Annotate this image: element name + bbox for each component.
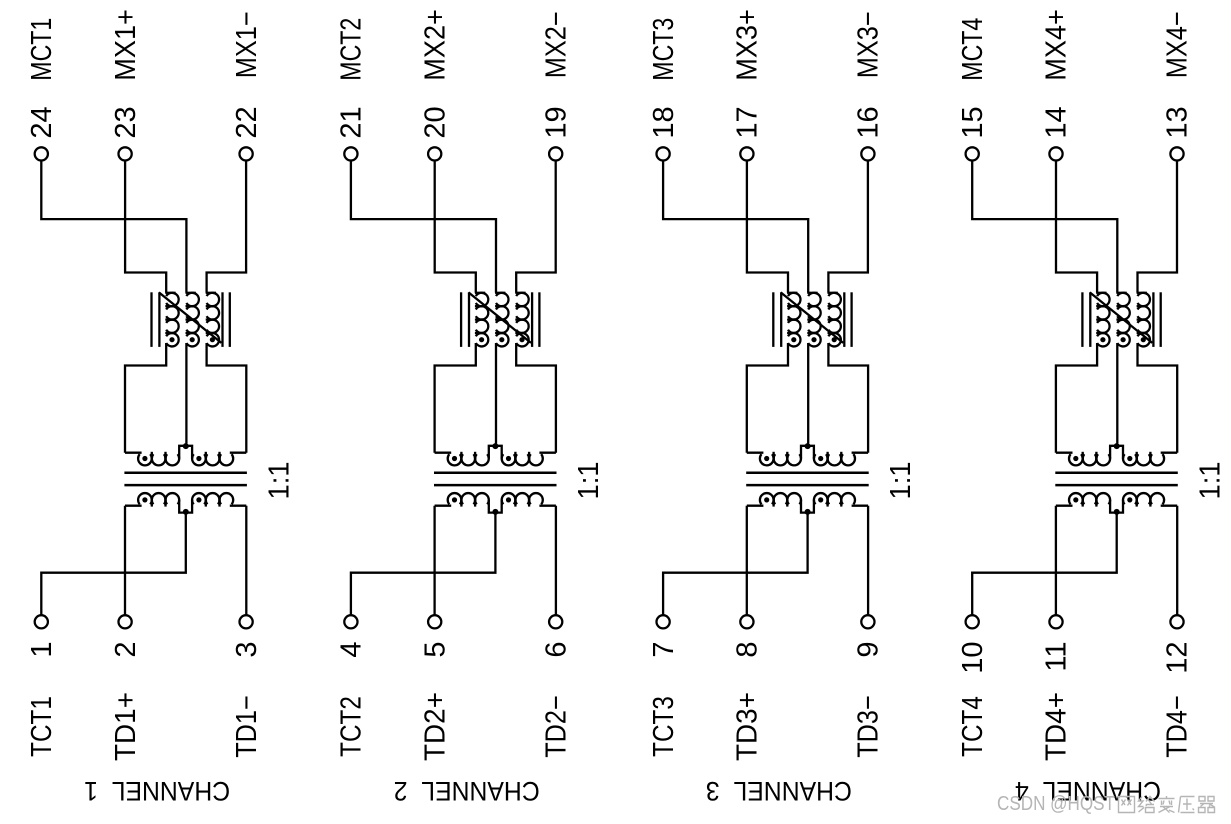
svg-text:1:1: 1:1 [1194,462,1226,500]
svg-text:1:1: 1:1 [573,462,605,500]
svg-text:CHANNEL 2: CHANNEL 2 [394,776,540,806]
svg-text:TD4−: TD4− [1162,695,1194,758]
svg-text:17: 17 [732,106,764,138]
svg-text:1:1: 1:1 [885,462,917,500]
svg-text:MX2+: MX2+ [419,9,451,81]
svg-text:CSDN @HQST: CSDN @HQST [997,793,1115,815]
svg-text:TD1+: TD1+ [110,692,142,761]
svg-text:2: 2 [110,642,142,658]
svg-text:MCT1: MCT1 [26,18,58,81]
svg-text:TD3+: TD3+ [732,692,764,761]
svg-text:21: 21 [336,106,368,138]
svg-text:1: 1 [26,642,58,658]
svg-text:1:1: 1:1 [263,462,295,500]
svg-text:18: 18 [648,106,680,138]
svg-text:CHANNEL 3: CHANNEL 3 [706,776,852,806]
svg-text:TD3−: TD3− [853,695,885,758]
svg-text:14: 14 [1041,106,1073,138]
svg-text:TCT2: TCT2 [336,696,368,757]
svg-text:MX1−: MX1− [231,11,263,78]
svg-text:MCT4: MCT4 [957,18,989,81]
svg-text:24: 24 [26,106,58,138]
svg-text:TD1−: TD1− [231,695,263,758]
svg-text:MCT3: MCT3 [648,18,680,81]
svg-text:TCT1: TCT1 [26,696,58,757]
svg-text:MX4−: MX4− [1162,11,1194,78]
svg-text:23: 23 [110,106,142,138]
svg-text:TCT3: TCT3 [648,696,680,757]
svg-text:8: 8 [732,642,764,658]
svg-text:19: 19 [540,106,572,138]
svg-text:22: 22 [231,106,263,138]
svg-text:TD2−: TD2− [540,695,572,758]
svg-text:15: 15 [957,106,989,138]
svg-text:TCT4: TCT4 [957,696,989,757]
svg-text:13: 13 [1162,106,1194,138]
svg-text:TD4+: TD4+ [1041,692,1073,761]
svg-text:6: 6 [540,642,572,658]
svg-text:5: 5 [419,642,451,658]
svg-text:11: 11 [1041,642,1073,672]
svg-text:4: 4 [336,642,368,658]
svg-text:MX4+: MX4+ [1041,9,1073,81]
svg-text:9: 9 [853,642,885,658]
svg-text:MX2−: MX2− [540,11,572,78]
svg-text:20: 20 [419,106,451,138]
svg-text:10: 10 [957,642,989,674]
svg-text:MCT2: MCT2 [336,18,368,81]
svg-text:CHANNEL 1: CHANNEL 1 [84,776,230,806]
svg-text:TD2+: TD2+ [419,692,451,761]
svg-text:3: 3 [231,642,263,658]
svg-text:12: 12 [1162,642,1194,674]
svg-text:MX3+: MX3+ [732,9,764,81]
svg-text:16: 16 [853,106,885,138]
svg-text:MX3−: MX3− [853,11,885,78]
svg-text:7: 7 [648,642,680,658]
svg-text:MX1+: MX1+ [110,9,142,81]
